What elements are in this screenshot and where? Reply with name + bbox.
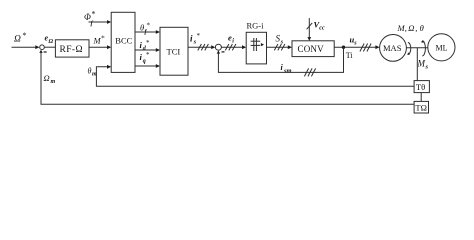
svg-text:cc: cc: [319, 25, 325, 31]
wire RG-i to CONV with S_s label: [267, 46, 289, 48]
svg-text:CONV: CONV: [298, 44, 325, 54]
wire i_sm current feedback from Ti junction to junction 2: [218, 47, 343, 72]
node V_cc label: [314, 20, 325, 32]
svg-text:θ: θ: [420, 23, 424, 33]
svg-text:i: i: [190, 34, 193, 44]
wire RF-Omega to BCC with M* label: [89, 46, 108, 48]
svg-text:RG-i: RG-i: [247, 21, 265, 31]
svg-text:Ω: Ω: [408, 23, 414, 33]
block CONV power converter: [292, 41, 334, 57]
junction dot to current transducer Ti: [342, 46, 345, 49]
block T-Omega speed transducer: [414, 101, 428, 113]
wire Omega* input to summing junction: [12, 46, 37, 48]
svg-text:S: S: [276, 34, 281, 44]
svg-text:Tθ: Tθ: [416, 82, 425, 92]
svg-text:s: s: [425, 64, 429, 71]
node M, Omega, theta shaft quantities label: [397, 23, 424, 33]
bus slash marks on e_i wire: [225, 44, 229, 50]
svg-text:MAS: MAS: [383, 43, 402, 53]
svg-text:TΩ: TΩ: [415, 103, 427, 113]
block RF-Omega speed regulator: [55, 40, 89, 57]
svg-text:f: f: [91, 20, 94, 27]
bus slash marks on S_s wire: [274, 44, 278, 50]
bus slash marks on i_s* wire: [198, 44, 202, 50]
summing junction 1 (speed error): [40, 45, 45, 50]
wire BCC output theta_f* to TCI: [135, 31, 157, 33]
node theta_m label: [88, 67, 98, 78]
svg-text:Ω: Ω: [44, 73, 50, 83]
svg-text:m: m: [51, 79, 56, 85]
wire BCC output i_q* to TCI: [135, 65, 157, 67]
node M_s load torque label: [417, 59, 429, 71]
svg-text:TCI: TCI: [167, 47, 181, 57]
bus slash on V_cc wire: [307, 23, 313, 29]
node Ti current transducer label: [346, 51, 354, 60]
svg-text:sm: sm: [283, 67, 292, 74]
svg-text:*: *: [197, 32, 201, 40]
block T-theta position transducer: [414, 81, 429, 93]
minus sign at junction 2: [222, 51, 225, 53]
machine ML load machine: [428, 34, 455, 61]
wire CONV output u_s to MAS: [334, 46, 376, 48]
wire V_cc supply into CONV top: [308, 18, 310, 37]
wire junction 2 to RG-i with e_i label: [221, 46, 242, 48]
node Omega_m label: [44, 73, 56, 85]
bus slash marks on i_sm wire: [304, 68, 308, 76]
block RG-i hysteresis current controller: [246, 32, 266, 64]
machine MAS asynchronous motor: [380, 35, 407, 62]
svg-text:*: *: [23, 31, 27, 40]
svg-text:s: s: [353, 41, 357, 47]
wire T-theta to T-Omega: [420, 93, 422, 102]
hysteresis symbol inside RG-i: [253, 38, 255, 51]
svg-text:RF-Ω: RF-Ω: [60, 45, 83, 55]
svg-text:*: *: [146, 39, 150, 47]
svg-text:ML: ML: [436, 44, 448, 53]
wire Omega_m feedback from T-Omega to junction 1: [41, 53, 414, 105]
torque arc M_s on shaft: [422, 41, 425, 56]
wire TCI output i_s* to summing junction 2: [188, 46, 213, 48]
svg-text:BCC: BCC: [115, 35, 132, 45]
node Phi_f* flux reference label: [84, 10, 96, 28]
node e_Omega error label: [45, 34, 54, 46]
svg-text:θ: θ: [88, 67, 92, 76]
svg-text:i: i: [232, 39, 234, 45]
svg-text:*: *: [146, 51, 150, 59]
minus sign at junction 1: [44, 51, 47, 53]
svg-text:M: M: [417, 59, 426, 69]
wire BCC output i_d* to TCI: [135, 49, 157, 51]
wire junction 1 to RF-Omega: [45, 46, 56, 48]
rotation arrow arc on shaft: [408, 43, 411, 55]
svg-text:*: *: [92, 10, 96, 19]
svg-text:Ti: Ti: [346, 51, 354, 60]
block TCI current inverse transformation: [160, 27, 188, 75]
node i_sm label: [281, 63, 292, 74]
svg-text:m: m: [92, 72, 97, 78]
summing junction 2 (current error): [215, 44, 221, 50]
node u_s label: [350, 35, 358, 47]
block BCC coordinate calculation: [111, 12, 135, 72]
wire Phi_f* into BCC: [89, 21, 108, 23]
svg-text:q: q: [143, 59, 146, 65]
svg-text:,: ,: [405, 23, 407, 33]
svg-text:,: ,: [415, 23, 417, 33]
arrowhead into summing junction 1: [35, 45, 39, 49]
wire shaft tap down to transducers: [416, 48, 418, 81]
bus slash marks on u_s wire: [360, 44, 364, 52]
node Omega* speed reference input label: [14, 31, 27, 44]
svg-text:*: *: [101, 34, 105, 43]
shaft MAS to ML: [406, 47, 427, 49]
wire theta_m feedback from T-theta to BCC: [96, 67, 414, 86]
svg-text:Ω: Ω: [14, 34, 21, 44]
svg-text:Ω: Ω: [49, 39, 54, 45]
svg-text:*: *: [147, 22, 151, 30]
